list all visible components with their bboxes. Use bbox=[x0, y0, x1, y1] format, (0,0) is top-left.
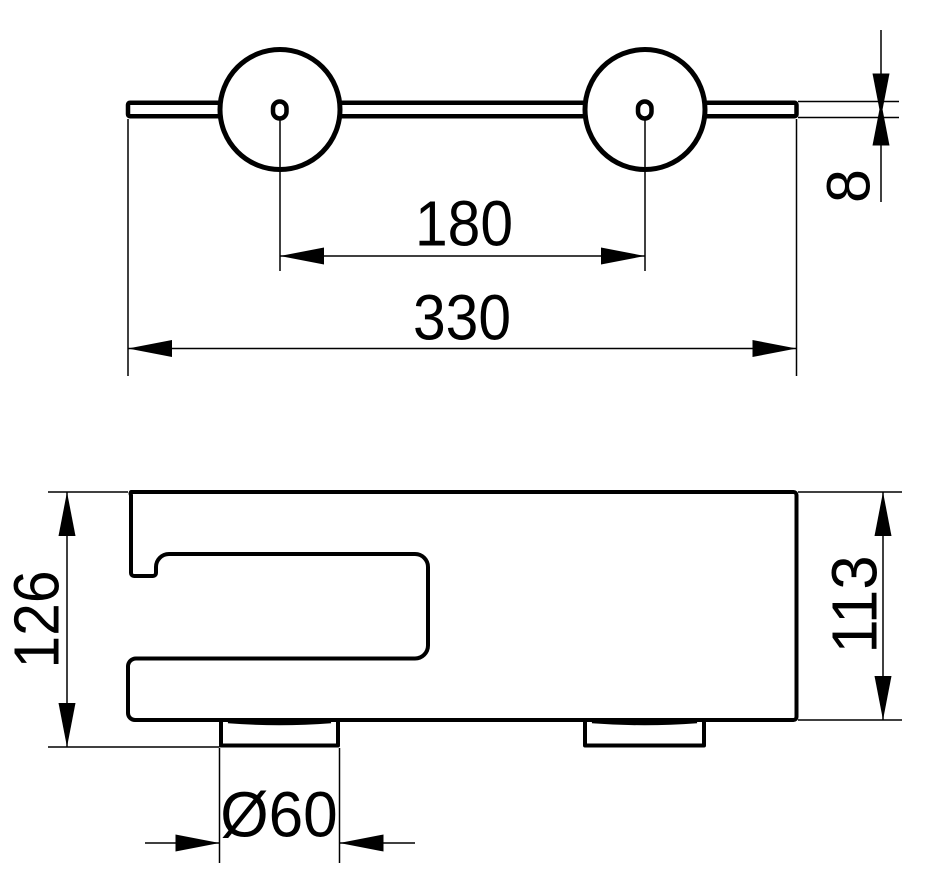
screw slot right bbox=[638, 102, 652, 119]
centerline right bbox=[644, 120, 646, 271]
foot right bbox=[585, 719, 704, 746]
dimension 330 bbox=[128, 119, 797, 376]
dimension 126 bbox=[1, 492, 220, 747]
svg-text:8: 8 bbox=[815, 169, 883, 203]
wall bar (top view) bbox=[128, 103, 797, 117]
svg-text:126: 126 bbox=[1, 571, 73, 669]
dimension 8 bbox=[798, 30, 899, 203]
foot left bbox=[221, 719, 338, 746]
dimension 180 bbox=[280, 188, 645, 265]
bracket body outline bbox=[128, 492, 797, 720]
svg-text:330: 330 bbox=[413, 282, 511, 354]
dimension 113 bbox=[798, 492, 902, 720]
svg-text:180: 180 bbox=[415, 188, 513, 260]
dimension Ø60 bbox=[145, 748, 415, 863]
centerline left bbox=[279, 120, 281, 271]
svg-text:113: 113 bbox=[819, 556, 891, 654]
screw slot left bbox=[273, 102, 287, 119]
mounting rosette right bbox=[585, 50, 705, 170]
mounting rosette left bbox=[220, 50, 340, 170]
svg-text:Ø60: Ø60 bbox=[220, 779, 338, 851]
